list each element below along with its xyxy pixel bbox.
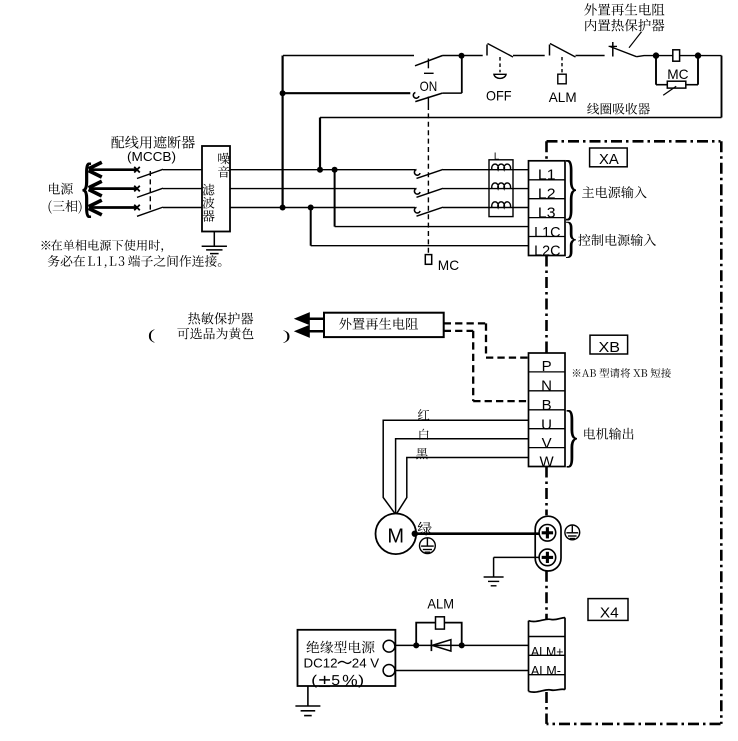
svg-text:L1C: L1C (534, 224, 561, 241)
svg-text:(MCCB): (MCCB) (127, 149, 176, 164)
svg-text:MC: MC (667, 66, 688, 82)
svg-text:L2: L2 (538, 186, 556, 203)
svg-text:ALM-: ALM- (531, 663, 561, 678)
svg-text:XB: XB (599, 340, 621, 356)
svg-text:P: P (542, 358, 552, 375)
svg-text:V: V (542, 435, 552, 452)
svg-text:ALM: ALM (549, 89, 577, 105)
svg-text:L1: L1 (538, 166, 556, 183)
svg-text:W: W (540, 454, 555, 471)
svg-text:U: U (541, 416, 552, 433)
svg-text:L3: L3 (538, 205, 556, 222)
svg-text:M: M (387, 525, 404, 547)
svg-text:OFF: OFF (486, 87, 512, 103)
svg-text:24 V: 24 V (352, 655, 379, 670)
svg-text:ALM: ALM (427, 595, 454, 611)
svg-text:N: N (541, 378, 552, 395)
svg-text:B: B (542, 397, 552, 414)
svg-text:MC: MC (438, 257, 459, 273)
svg-text:DC12: DC12 (304, 655, 338, 670)
svg-text:X4: X4 (600, 606, 619, 622)
svg-text:L: L (494, 152, 500, 163)
svg-text:XA: XA (599, 152, 619, 168)
svg-text:ON: ON (420, 78, 438, 94)
svg-text:ALM+: ALM+ (531, 644, 564, 659)
